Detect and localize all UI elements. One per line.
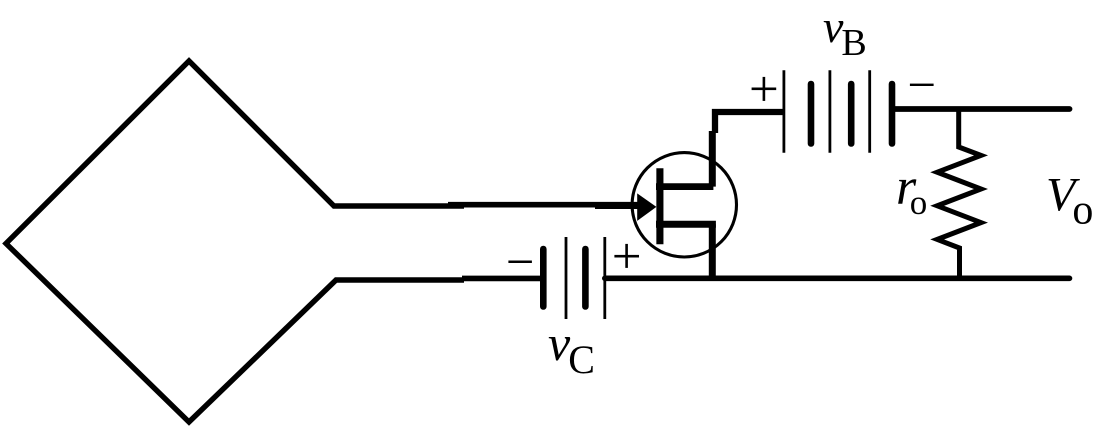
- transistor Q1 drain lead horizontal: [656, 183, 713, 190]
- svg-text:Vo: Vo: [1046, 169, 1093, 234]
- resistor ro zigzag: [937, 109, 981, 278]
- battery vB plate positive thin tall (left): [783, 70, 786, 153]
- minus sign (vC): [508, 261, 532, 264]
- svg-text:ro: ro: [896, 159, 927, 222]
- transistor Q1 gate lead: [595, 203, 644, 209]
- source diamond: [6, 61, 464, 422]
- plus sign (vC): [614, 244, 639, 268]
- transistor Q1 gate arrowhead: [637, 193, 656, 221]
- transistor Q1 drain lead vertical: [709, 131, 716, 187]
- wire top rail right (vB battery to right edge): [892, 106, 1070, 112]
- battery vB plate negative thick (right): [889, 84, 896, 144]
- transistor Q1 circle: [632, 153, 736, 257]
- battery vB plate thick: [848, 84, 855, 144]
- battery vB plate thin tall: [868, 70, 871, 153]
- battery vC plate thin tall: [565, 237, 568, 319]
- wire drain up to vB battery: [715, 112, 784, 133]
- battery vC plate negative thick (left): [540, 249, 547, 307]
- battery vC plate positive thin tall (right): [603, 237, 606, 319]
- battery vB plate thin tall: [829, 70, 832, 153]
- svg-text:vC: vC: [548, 315, 595, 382]
- wire bottom-left rail (diamond to vC battery): [462, 276, 542, 282]
- battery vB plate thick: [808, 84, 815, 144]
- wire gate lead (diamond to transistor): [448, 202, 641, 208]
- wire source down to bottom rail: [709, 224, 716, 280]
- transistor Q1 source lead horizontal: [656, 221, 716, 228]
- svg-text:vB: vB: [823, 1, 867, 64]
- battery vC plate thick: [582, 249, 589, 307]
- transistor Q1 base bar: [656, 168, 663, 244]
- wire bottom rail right (vC battery to right edge): [605, 275, 1070, 281]
- plus sign (vB): [752, 77, 777, 101]
- minus sign (vB): [910, 84, 934, 86]
